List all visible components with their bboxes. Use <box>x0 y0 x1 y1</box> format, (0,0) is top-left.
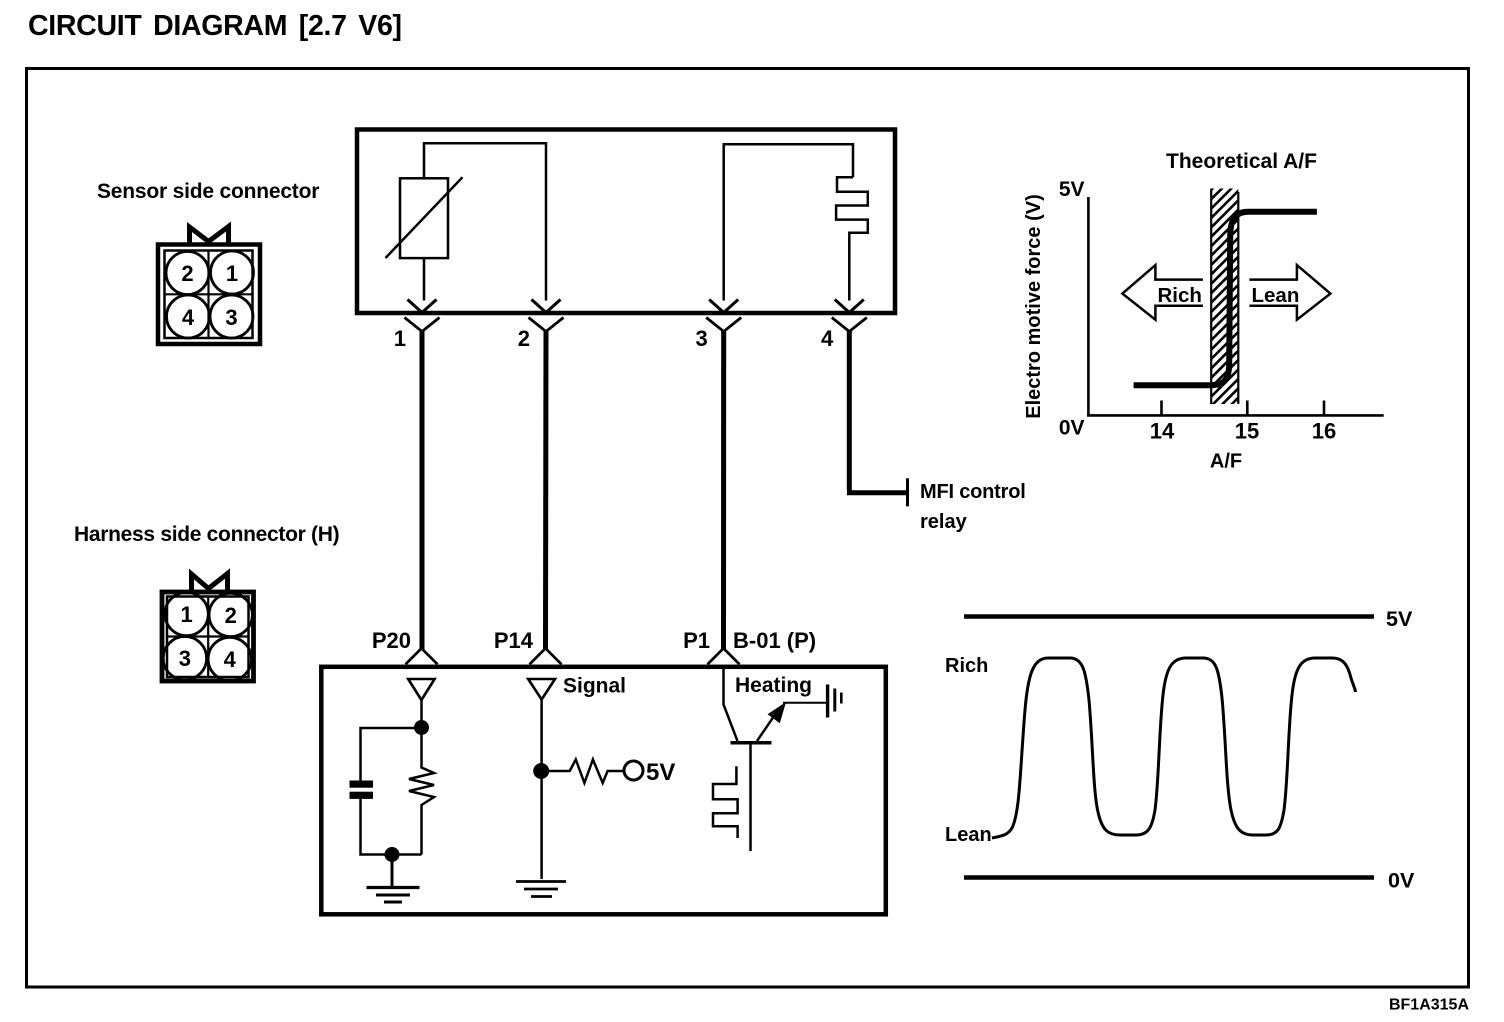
svg-text:0V: 0V <box>1059 417 1085 440</box>
svg-text:Heating: Heating <box>735 674 812 697</box>
harness side connector icon <box>162 574 254 682</box>
ground (P14) <box>516 882 566 897</box>
pin P14 chevron <box>530 648 562 664</box>
pin 4 <box>832 300 867 332</box>
svg-text:2: 2 <box>181 261 193 286</box>
svg-text:4: 4 <box>224 647 237 672</box>
ground (emitter, rotated) <box>828 685 842 718</box>
pin P20 chevron <box>406 648 438 664</box>
graph: y axis <box>1087 197 1090 415</box>
svg-text:4: 4 <box>821 326 834 351</box>
svg-text:Rich: Rich <box>945 655 988 677</box>
svg-text:BF1A315A: BF1A315A <box>1389 997 1469 1014</box>
terminal triangle P14 <box>528 679 555 700</box>
pin 1 <box>405 300 440 332</box>
svg-text:3: 3 <box>225 305 237 330</box>
svg-text:4: 4 <box>182 305 195 330</box>
node: P20 top junction <box>414 720 429 735</box>
svg-text:P1: P1 <box>683 628 710 653</box>
heater element (sensor side) <box>836 177 868 300</box>
svg-text:Electro motive force (V): Electro motive force (V) <box>1023 194 1045 419</box>
graph: Lean arrow <box>1249 265 1330 320</box>
wire: pin1 to P20 <box>420 330 425 649</box>
wire: pin4 to MFI control relay <box>847 330 906 493</box>
graph: tick 15 <box>1246 401 1249 415</box>
svg-text:5V: 5V <box>646 759 675 786</box>
svg-text:P14: P14 <box>494 628 534 653</box>
svg-text:0V: 0V <box>1388 869 1415 893</box>
svg-text:A/F: A/F <box>1210 451 1242 473</box>
svg-text:16: 16 <box>1312 419 1336 444</box>
svg-text:3: 3 <box>695 326 707 351</box>
node: P20 bottom junction <box>385 847 400 862</box>
graph: x axis <box>1087 414 1384 417</box>
svg-text:5V: 5V <box>1059 178 1085 201</box>
svg-text:15: 15 <box>1235 419 1259 444</box>
graph: tick 16 <box>1323 401 1326 415</box>
graph: Rich arrow <box>1122 265 1203 320</box>
wire: pin3 to P1 <box>721 330 726 649</box>
svg-text:1: 1 <box>226 261 238 286</box>
svg-text:14: 14 <box>1150 419 1175 444</box>
wire: element to pins 1 and 2 <box>424 143 546 300</box>
svg-text:P20: P20 <box>372 628 411 653</box>
svg-text:3: 3 <box>179 646 191 671</box>
oxygen sensor box <box>357 130 895 314</box>
svg-text:MFI control: MFI control <box>920 481 1026 503</box>
wire: base lead down <box>749 745 752 852</box>
waveform: oscillation curve <box>992 658 1356 838</box>
pin P1 / B-01 chevron <box>708 648 740 664</box>
resistor R2 (5V pull-up) <box>549 760 624 784</box>
svg-text:2: 2 <box>225 603 237 628</box>
heater element symbol (ECU side) <box>713 766 738 838</box>
svg-text:CIRCUIT DIAGRAM [2.7 V6]: CIRCUIT DIAGRAM [2.7 V6] <box>28 10 402 42</box>
svg-text:Rich: Rich <box>1158 284 1202 307</box>
svg-text:relay: relay <box>920 511 968 533</box>
5V supply terminal <box>624 761 643 780</box>
waveform: 5V reference line <box>964 614 1374 619</box>
wire: emitter to ground <box>783 702 827 704</box>
terminal triangle P20 <box>408 679 434 700</box>
wire: P1 to transistor collector <box>724 665 738 741</box>
waveform: 0V reference line <box>964 875 1374 880</box>
svg-text:1: 1 <box>394 326 406 351</box>
wire: P14 to ground <box>540 700 543 880</box>
graph: EMF step curve <box>1134 212 1317 386</box>
sensor side connector icon <box>158 227 260 345</box>
svg-text:5V: 5V <box>1386 607 1413 631</box>
svg-text:Theoretical A/F: Theoretical A/F <box>1166 150 1317 173</box>
svg-text:2: 2 <box>518 326 530 351</box>
svg-text:Lean: Lean <box>1252 284 1300 307</box>
svg-text:1: 1 <box>180 602 192 627</box>
wire: P20 to node <box>420 700 423 728</box>
transistor Q1 (heater driver) <box>731 741 772 745</box>
svg-text:Lean: Lean <box>945 824 992 846</box>
wire: capacitor branch <box>361 728 422 855</box>
svg-text:B-01 (P): B-01 (P) <box>733 628 816 653</box>
pin 2 <box>529 300 564 332</box>
wire: pin2 to P14 <box>543 330 549 649</box>
MFI control relay terminal <box>906 478 909 506</box>
capacitor C1 <box>350 781 374 788</box>
svg-text:Sensor side connector: Sensor side connector <box>97 180 319 203</box>
ground (P20) <box>367 858 420 902</box>
graph: tick 14 <box>1160 401 1163 415</box>
resistor R1 (vertical) <box>409 733 434 855</box>
sensing element (zirconia cell) <box>400 178 448 258</box>
wire: pin 3 loop to heater <box>724 144 853 300</box>
pin 3 <box>706 300 741 332</box>
node: P14 junction <box>533 763 549 779</box>
svg-text:Harness side connector (H): Harness side connector (H) <box>74 523 339 546</box>
svg-text:Signal: Signal <box>563 675 626 698</box>
ECU box <box>321 667 886 915</box>
